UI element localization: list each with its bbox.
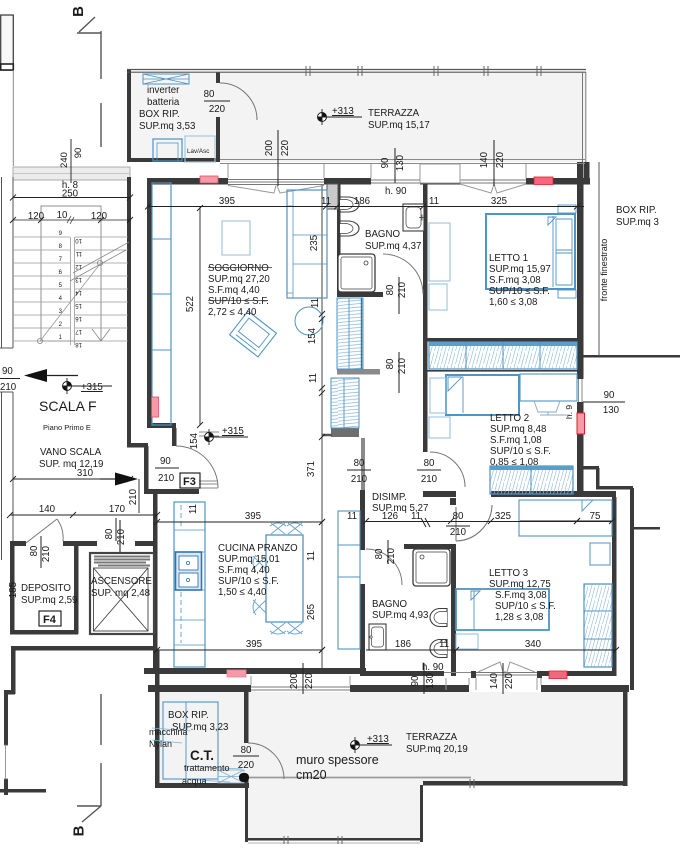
door bagno2 bbox=[366, 549, 402, 585]
letto3 door hinge stub bbox=[450, 498, 456, 505]
dim line x322 ticks bbox=[319, 311, 325, 653]
svg-text:SUP.mq 15,17: SUP.mq 15,17 bbox=[368, 120, 430, 131]
soggiorno rug/table bbox=[222, 221, 250, 255]
dim line 140/170 bbox=[10, 514, 157, 516]
terrazza top wall thin bbox=[127, 69, 586, 71]
stair inner guide rect bbox=[41, 206, 101, 341]
svg-text:S.F.mq 3,08: S.F.mq 3,08 bbox=[495, 590, 547, 601]
svg-text:SCALA F: SCALA F bbox=[39, 398, 97, 414]
stair steps left flight bbox=[13, 237, 70, 341]
box rip top room walls bbox=[127, 69, 131, 162]
svg-text:0,85 ≤ 1,08: 0,85 ≤ 1,08 bbox=[490, 457, 538, 468]
svg-text:Nylan: Nylan bbox=[149, 739, 172, 749]
box rip bottom machine bbox=[163, 702, 218, 779]
level marker +315 scala bbox=[62, 378, 112, 394]
black dot muro spessore bbox=[239, 773, 249, 782]
svg-text:VANO SCALA: VANO SCALA bbox=[40, 447, 102, 458]
svg-text:B: B bbox=[71, 825, 88, 836]
level marker +313 terrazza bottom bbox=[350, 737, 392, 753]
right neighbour boundary bbox=[583, 355, 680, 358]
svg-text:11: 11 bbox=[429, 196, 439, 207]
svg-text:cm20: cm20 bbox=[296, 768, 327, 782]
door bagno1 bbox=[383, 254, 423, 294]
svg-text:Lav/Asc: Lav/Asc bbox=[187, 148, 209, 155]
dim line disimp y521 bbox=[366, 521, 612, 523]
svg-text:80: 80 bbox=[204, 89, 215, 100]
svg-text:BAGNO: BAGNO bbox=[365, 229, 400, 240]
svg-text:11: 11 bbox=[306, 551, 317, 561]
deposito/ascensore top wall bbox=[10, 541, 26, 546]
bagno1 left wall bbox=[337, 184, 341, 297]
svg-text:SUP.mq 12,75: SUP.mq 12,75 bbox=[489, 579, 551, 590]
svg-text:LETTO 1: LETTO 1 bbox=[489, 253, 528, 264]
terrace parapet ticks bbox=[284, 836, 342, 844]
svg-text:186: 186 bbox=[395, 639, 411, 650]
terrazza bottom fill bbox=[158, 692, 627, 841]
svg-text:250: 250 bbox=[62, 189, 79, 200]
svg-text:395: 395 bbox=[245, 511, 261, 522]
corridor left wall bbox=[127, 443, 148, 448]
dim 210 vertical right of 310 bbox=[138, 479, 140, 513]
svg-text:BAGNO: BAGNO bbox=[372, 599, 407, 610]
letto1 wardrobe hatched bbox=[429, 342, 577, 369]
svg-text:80: 80 bbox=[385, 284, 396, 295]
soggiorno round table bbox=[295, 307, 323, 335]
svg-text:210: 210 bbox=[116, 528, 127, 545]
SECTIONMARKS bbox=[77, 17, 101, 822]
kitchen counter bbox=[174, 502, 205, 667]
svg-text:inverter: inverter bbox=[147, 85, 180, 96]
svg-text:395: 395 bbox=[246, 639, 262, 650]
DIMS bbox=[0, 101, 625, 782]
svg-text:acqua: acqua bbox=[182, 776, 207, 786]
svg-text:340: 340 bbox=[525, 639, 542, 650]
letto1 nightstands bbox=[558, 205, 576, 213]
letto2 bottom / disimp top wall bbox=[423, 491, 456, 497]
svg-text:240: 240 bbox=[59, 152, 70, 168]
letto3 bed bbox=[456, 589, 549, 630]
corridor walls bottom-left bbox=[11, 646, 157, 651]
fraction 80/220 box rip bottom bbox=[233, 755, 259, 757]
cucina tall cabinet bbox=[338, 511, 360, 649]
apartment bottom wall with window gaps bbox=[148, 685, 251, 692]
svg-text:SUP/10 ≤ S.F.: SUP/10 ≤ S.F. bbox=[490, 446, 551, 457]
window jambs to terrazza bbox=[227, 164, 229, 178]
svg-text:DISIMP.: DISIMP. bbox=[372, 492, 407, 503]
svg-text:210: 210 bbox=[351, 474, 368, 485]
letto3 window open triangles bbox=[478, 662, 535, 672]
svg-text:185: 185 bbox=[8, 582, 19, 598]
svg-text:11: 11 bbox=[188, 504, 199, 514]
box rip top: Lav/Asc box bbox=[185, 136, 215, 162]
svg-text:130: 130 bbox=[603, 405, 620, 416]
dim line y208 main bbox=[148, 206, 584, 208]
rotated dim 80/210 middle door bbox=[398, 352, 400, 393]
letto2 right window bbox=[578, 379, 580, 402]
svg-text:BOX RIP.: BOX RIP. bbox=[139, 109, 180, 120]
svg-text:15: 15 bbox=[75, 302, 82, 308]
svg-text:80: 80 bbox=[104, 528, 115, 539]
svg-text:SUP.mq 3: SUP.mq 3 bbox=[616, 217, 659, 228]
svg-text:14: 14 bbox=[75, 289, 82, 295]
svg-text:120: 120 bbox=[28, 211, 45, 222]
stair numbers left bbox=[59, 231, 63, 341]
shaft between soggiorno wall and bagno1 bbox=[327, 184, 338, 209]
letto3 small cabinet bbox=[590, 543, 610, 565]
svg-text:126: 126 bbox=[382, 511, 398, 522]
soggiorno right thin wall bbox=[321, 184, 323, 668]
letto3 tall wardrobe hatched bbox=[584, 584, 612, 667]
svg-text:TERRAZZA: TERRAZZA bbox=[406, 732, 458, 743]
svg-text:BOX RIP.: BOX RIP. bbox=[616, 205, 657, 216]
box rip top fraction 80/220 bbox=[204, 100, 230, 102]
stair diagonal break bbox=[70, 242, 129, 281]
stair steps right flight bbox=[75, 237, 128, 341]
cucina table bbox=[266, 535, 303, 622]
box rip bottom walls bbox=[155, 650, 160, 788]
svg-text:SUP. mq 2,48: SUP. mq 2,48 bbox=[91, 588, 150, 599]
svg-text:200: 200 bbox=[289, 672, 300, 689]
stair direction arrow bbox=[40, 264, 100, 341]
svg-text:265: 265 bbox=[306, 604, 317, 620]
dim line 522 vertical bbox=[199, 207, 201, 426]
doccia bagno1 bbox=[338, 254, 375, 292]
svg-text:310: 310 bbox=[77, 468, 94, 479]
soggiorno left wall bbox=[147, 178, 153, 428]
svg-text:1,60 ≤ 3,08: 1,60 ≤ 3,08 bbox=[489, 297, 537, 308]
svg-text:220: 220 bbox=[280, 139, 291, 156]
svg-text:371: 371 bbox=[306, 461, 317, 477]
letto1 bottom wall bbox=[423, 338, 583, 342]
arrow right vano scala bbox=[100, 478, 115, 480]
fraction 90/210 scala left bbox=[0, 378, 20, 380]
svg-text:11: 11 bbox=[310, 298, 321, 308]
right wall letti bbox=[577, 162, 584, 379]
door letto2 bbox=[430, 452, 465, 487]
stair central stringer bbox=[71, 237, 75, 345]
bidet bagno1 bbox=[340, 221, 359, 236]
svg-text:220: 220 bbox=[304, 672, 315, 689]
svg-text:CUCINA PRANZO: CUCINA PRANZO bbox=[218, 543, 298, 554]
letto2 bed bbox=[446, 375, 519, 415]
svg-text:S.F.mq 4,40: S.F.mq 4,40 bbox=[208, 285, 260, 296]
svg-text:1,28 ≤ 3,08: 1,28 ≤ 3,08 bbox=[495, 612, 543, 623]
svg-text:11: 11 bbox=[321, 196, 331, 207]
kitchen sink block bbox=[176, 552, 202, 590]
middle closet B hatched bbox=[331, 378, 359, 428]
svg-text:325: 325 bbox=[495, 511, 511, 522]
thin wall lines bbox=[0, 66, 599, 844]
left window bottom-left wall bbox=[4, 744, 8, 746]
ASCENSORE bbox=[90, 520, 154, 634]
bagno1 right wall / letto1 left wall bbox=[423, 184, 428, 342]
svg-text:17: 17 bbox=[75, 328, 82, 334]
left outer wall lines bbox=[1, 177, 3, 348]
window open triangles top bbox=[228, 186, 324, 194]
dim line 310 bbox=[13, 478, 130, 480]
svg-text:SUP.mq 4,37: SUP.mq 4,37 bbox=[365, 241, 421, 252]
rotated dim 80/210 bagno2 door bbox=[387, 540, 389, 564]
svg-text:80: 80 bbox=[453, 511, 464, 522]
door letto3 bbox=[456, 505, 492, 541]
svg-text:S.F.mq 4,40: S.F.mq 4,40 bbox=[218, 565, 270, 576]
svg-text:90: 90 bbox=[2, 366, 13, 377]
dim line letto3 wardrobe 75 bbox=[520, 520, 612, 522]
svg-text:210: 210 bbox=[397, 357, 408, 374]
svg-text:SUP.mq 4,93: SUP.mq 4,93 bbox=[372, 610, 428, 621]
svg-text:80: 80 bbox=[354, 458, 365, 469]
svg-text:90: 90 bbox=[380, 157, 391, 168]
letto2 top line bbox=[423, 370, 583, 372]
window glazing top wall bbox=[228, 179, 324, 181]
svg-text:S.F.mq 3,08: S.F.mq 3,08 bbox=[489, 275, 541, 286]
letto3 right wall bbox=[612, 497, 617, 676]
stair top wall band bbox=[13, 167, 130, 180]
bidet bagno2 bbox=[430, 640, 447, 658]
svg-text:+313: +313 bbox=[332, 106, 354, 117]
BAGNO1 fixtures bbox=[338, 197, 425, 292]
apartment top wall with window gaps bbox=[148, 178, 228, 185]
wc bagno2 bbox=[430, 609, 447, 627]
cucina bottom window glazing bbox=[251, 686, 350, 688]
svg-text:SUP.mq 27,20: SUP.mq 27,20 bbox=[208, 274, 270, 285]
svg-text:h. 9: h. 9 bbox=[564, 405, 574, 419]
terrazza bottom borders bbox=[623, 688, 628, 786]
svg-text:220: 220 bbox=[238, 760, 255, 771]
box rip top: batteria hatch box bbox=[143, 74, 189, 84]
svg-text:12: 12 bbox=[75, 263, 82, 269]
svg-text:235: 235 bbox=[309, 235, 320, 251]
letto2 desk bbox=[520, 374, 577, 401]
fraction 80/210 corridor B bbox=[417, 469, 441, 471]
svg-text:DEPOSITO: DEPOSITO bbox=[21, 583, 71, 594]
svg-text:210: 210 bbox=[397, 281, 408, 298]
svg-text:1,50 ≤ 4,40: 1,50 ≤ 4,40 bbox=[218, 587, 267, 598]
trattamento acqua strikes bbox=[182, 766, 242, 782]
svg-text:SUP/10 ≤ S.F.: SUP/10 ≤ S.F. bbox=[208, 296, 269, 307]
svg-text:macchina: macchina bbox=[149, 727, 188, 737]
svg-text:trattamento: trattamento bbox=[184, 763, 230, 773]
svg-text:90: 90 bbox=[604, 390, 615, 401]
door box rip bottom bbox=[248, 743, 284, 779]
dim line letto3 340 bbox=[456, 649, 616, 651]
tick pairs on top wall bbox=[306, 66, 541, 76]
svg-text:SUP.mq 20,19: SUP.mq 20,19 bbox=[406, 744, 468, 755]
svg-text:13: 13 bbox=[75, 276, 82, 282]
fraction 90/130 right bbox=[584, 401, 625, 403]
stair numbers right (rotated) bbox=[75, 237, 82, 347]
right outer wall top bbox=[584, 162, 590, 179]
svg-text:11: 11 bbox=[75, 250, 82, 256]
svg-text:325: 325 bbox=[491, 196, 507, 207]
deposito walls bbox=[10, 546, 15, 634]
svg-text:154: 154 bbox=[307, 327, 318, 344]
svg-text:120: 120 bbox=[91, 211, 108, 222]
svg-text:ASCENSORE: ASCENSORE bbox=[91, 576, 152, 587]
svg-text:10: 10 bbox=[57, 210, 68, 221]
dim line cucina bottom 395 bbox=[157, 649, 322, 651]
svg-text:SUP.mq 2,59: SUP.mq 2,59 bbox=[21, 595, 77, 606]
svg-text:SUP. mq 12,19: SUP. mq 12,19 bbox=[39, 459, 103, 470]
top-left neighbour room bbox=[1, 15, 14, 70]
left boundary thin line bbox=[12, 70, 14, 166]
svg-text:TERRAZZA: TERRAZZA bbox=[368, 108, 420, 119]
svg-text:batteria: batteria bbox=[147, 97, 180, 108]
gray threshold middle closets bbox=[337, 369, 380, 375]
svg-text:11: 11 bbox=[347, 511, 357, 522]
stair right wall bbox=[127, 177, 131, 443]
cucina left wall bbox=[153, 494, 158, 672]
svg-text:140: 140 bbox=[479, 151, 490, 168]
ascensore right block wall bbox=[153, 515, 158, 650]
svg-text:210: 210 bbox=[0, 382, 17, 393]
svg-text:SUP/10 ≤ S.F.: SUP/10 ≤ S.F. bbox=[489, 286, 550, 297]
cucina bottom wall bbox=[144, 668, 366, 674]
svg-text:2,72 ≤ 4,40: 2,72 ≤ 4,40 bbox=[208, 307, 257, 318]
svg-text:11: 11 bbox=[439, 639, 449, 650]
letto2 wardrobe hatched bbox=[490, 466, 573, 494]
cucina chairs bbox=[253, 523, 303, 634]
letto3 bedside bbox=[456, 634, 478, 649]
FURNITURE bbox=[143, 74, 612, 783]
svg-text:220: 220 bbox=[504, 672, 515, 689]
fraction 80/210 corridor A bbox=[347, 469, 371, 471]
svg-text:90: 90 bbox=[410, 675, 421, 686]
svg-text:LETTO 3: LETTO 3 bbox=[489, 568, 528, 579]
svg-text:80: 80 bbox=[29, 545, 40, 556]
svg-text:S.F.mq 1,08: S.F.mq 1,08 bbox=[490, 435, 542, 446]
svg-text:90: 90 bbox=[160, 456, 171, 467]
svg-text:SUP.mq 8,48: SUP.mq 8,48 bbox=[490, 424, 546, 435]
svg-text:210: 210 bbox=[386, 547, 397, 564]
svg-text:522: 522 bbox=[185, 296, 196, 312]
lavabo bagno2 bbox=[369, 624, 386, 650]
rotated dim 80/210 deposito bbox=[40, 536, 42, 568]
svg-text:F3: F3 bbox=[183, 476, 196, 488]
svg-text:75: 75 bbox=[590, 511, 601, 522]
svg-text:muro spessore: muro spessore bbox=[296, 753, 379, 767]
bagno2 left wall bbox=[360, 490, 365, 550]
wall above F3 bbox=[147, 423, 176, 428]
letto3 bottom window glazing bbox=[476, 672, 537, 674]
box rip top room fill bbox=[130, 72, 218, 160]
svg-text:16: 16 bbox=[75, 315, 82, 321]
letto1 side furniture bbox=[429, 223, 450, 281]
doccia bagno2 bbox=[413, 549, 450, 586]
svg-text:130: 130 bbox=[425, 672, 436, 689]
letto3 top wardrobe bbox=[519, 500, 612, 536]
level marker +313 terrazza top bbox=[317, 109, 362, 125]
sill jambs bottom bbox=[250, 676, 252, 685]
letto2 bedside bbox=[430, 378, 446, 413]
terrazza top bottom band bbox=[220, 159, 585, 161]
svg-text:80: 80 bbox=[385, 358, 396, 369]
door deposito leaf bbox=[26, 519, 63, 543]
neighbour line right of letti bbox=[598, 162, 600, 356]
svg-text:LETTO 2: LETTO 2 bbox=[490, 413, 529, 424]
lavabo bagno1 bbox=[403, 204, 424, 231]
middle closet A hatched bbox=[337, 298, 363, 369]
terrazza top fill bbox=[128, 72, 585, 162]
svg-text:140: 140 bbox=[489, 672, 500, 689]
svg-text:210: 210 bbox=[41, 545, 52, 562]
svg-text:200: 200 bbox=[264, 139, 275, 156]
svg-text:186: 186 bbox=[354, 196, 370, 207]
svg-text:h. 90: h. 90 bbox=[422, 662, 444, 673]
section B bottom bbox=[100, 694, 102, 806]
svg-text:SUP/10 ≤ S.F.: SUP/10 ≤ S.F. bbox=[218, 576, 279, 587]
svg-text:F4: F4 bbox=[43, 614, 57, 626]
DOORS bbox=[26, 83, 492, 779]
muro spessore cm20 wall line bbox=[243, 777, 471, 779]
svg-text:10: 10 bbox=[75, 237, 82, 243]
soggiorno armchair rotated bbox=[230, 311, 277, 357]
soggiorno left cabinet column bbox=[152, 183, 171, 425]
svg-text:SUP.mq 3,53: SUP.mq 3,53 bbox=[139, 121, 195, 132]
BAGNO2 fixtures bbox=[369, 549, 450, 658]
STAIRS bbox=[13, 177, 131, 443]
letto2 left wall bbox=[423, 342, 428, 452]
svg-text:BOX RIP.: BOX RIP. bbox=[168, 710, 209, 721]
svg-text:210: 210 bbox=[158, 473, 175, 484]
dim line bagno2 y650 bbox=[366, 649, 456, 651]
section B top: diagonal + dashed line bbox=[79, 17, 95, 32]
level marker +315 soggiorno bbox=[204, 429, 248, 445]
svg-text:+315: +315 bbox=[81, 382, 103, 393]
svg-text:SUP.mq 15,01: SUP.mq 15,01 bbox=[218, 554, 280, 565]
svg-text:154: 154 bbox=[189, 432, 200, 449]
svg-text:h. 90: h. 90 bbox=[385, 186, 407, 197]
svg-text:+313: +313 bbox=[367, 734, 389, 745]
dim line 250 stair bbox=[13, 197, 130, 199]
svg-text:18: 18 bbox=[75, 341, 82, 347]
svg-text:90: 90 bbox=[73, 148, 84, 159]
svg-text:220: 220 bbox=[495, 151, 506, 168]
bagno2 / letto3 wall bbox=[451, 544, 456, 676]
svg-text:C.T.: C.T. bbox=[190, 748, 214, 763]
rotated dim lines on terraces bbox=[277, 130, 279, 186]
svg-text:fronte finestrato: fronte finestrato bbox=[599, 239, 609, 302]
arrow left scala bbox=[47, 375, 78, 377]
svg-text:+315: +315 bbox=[222, 426, 244, 437]
fraction line 80/220 letto3 door bbox=[446, 525, 470, 527]
box rip top: washer bbox=[153, 139, 182, 161]
letto1 bed bbox=[486, 214, 575, 289]
svg-text:SOGGIORNO: SOGGIORNO bbox=[208, 263, 269, 274]
wc bagno1 bbox=[340, 197, 359, 212]
sill band lines bottom of letto3 bbox=[445, 678, 447, 690]
svg-text:210: 210 bbox=[450, 527, 467, 538]
svg-text:395: 395 bbox=[219, 196, 235, 207]
rotated dim 80/210 ascensore bbox=[115, 518, 117, 541]
rotated dim 80/210 bagno1 door bbox=[398, 277, 400, 314]
RED MARKERS bbox=[152, 176, 585, 679]
svg-text:170: 170 bbox=[109, 504, 126, 515]
svg-text:210: 210 bbox=[421, 474, 438, 485]
door sill F3 bbox=[199, 481, 218, 488]
door box rip top bbox=[220, 83, 257, 120]
svg-text:Piano Primo E: Piano Primo E bbox=[43, 423, 91, 432]
svg-text:80: 80 bbox=[241, 745, 252, 756]
dim line cucina top 395 bbox=[157, 521, 322, 523]
dim 240/90 top-left bbox=[59, 139, 84, 183]
soggiorno sofa bbox=[287, 190, 327, 298]
svg-text:220: 220 bbox=[209, 104, 226, 115]
bagno2 window bbox=[444, 672, 471, 674]
dim 90/130 letto2 window bbox=[583, 401, 625, 403]
svg-text:SUP/10 ≤ S.F.: SUP/10 ≤ S.F. bbox=[495, 601, 556, 612]
svg-text:130: 130 bbox=[395, 154, 406, 171]
